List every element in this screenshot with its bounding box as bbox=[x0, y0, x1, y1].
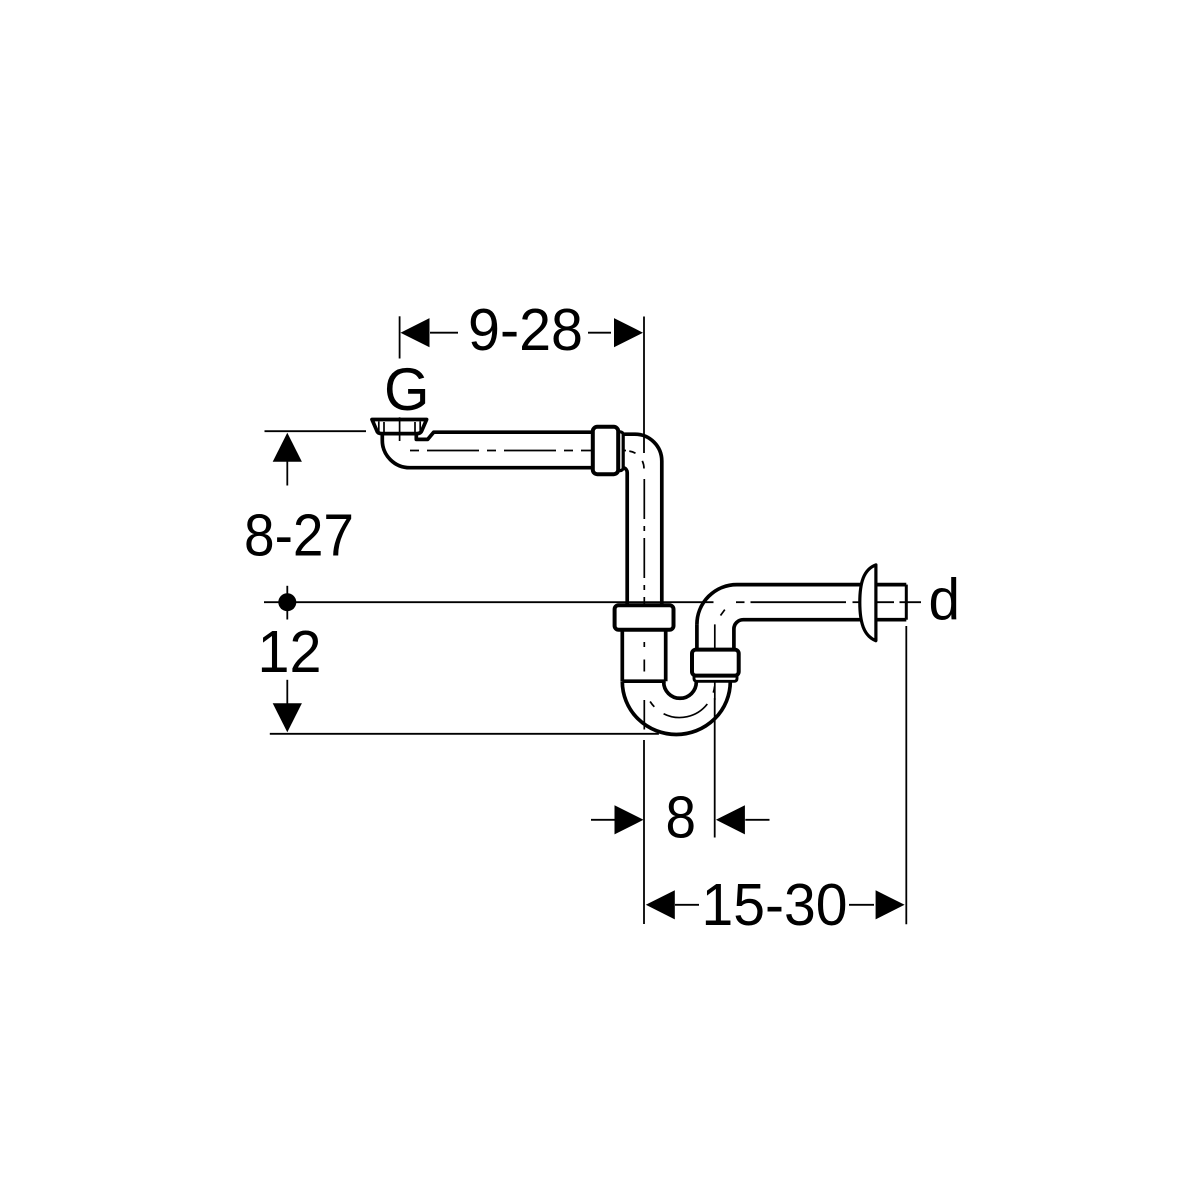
centerline U-bend dashes bbox=[650, 702, 654, 707]
arrow 12 down bbox=[273, 703, 302, 732]
union nut band bbox=[617, 432, 624, 471]
arrow 8-27 up bbox=[273, 433, 302, 462]
svg-text:8: 8 bbox=[666, 785, 697, 851]
flange slot ticks bbox=[379, 417, 420, 441]
centerline elbow 2 dash bbox=[721, 610, 725, 616]
centerline vertical pipe bbox=[643, 479, 645, 629]
svg-text:15-30: 15-30 bbox=[702, 872, 848, 938]
inlet pipe top outline with notch bbox=[416, 432, 593, 439]
U-bend outer arc bbox=[622, 682, 730, 735]
inlet pipe bottom outline bbox=[382, 435, 593, 468]
arrow 9-28 right bbox=[614, 318, 643, 347]
arrow 8 right (pointing left) bbox=[716, 805, 745, 834]
trap nut lower bbox=[692, 650, 739, 676]
elbow 1 inner bbox=[623, 468, 627, 606]
svg-text:9-28: 9-28 bbox=[468, 297, 583, 363]
trap nut upper bbox=[615, 605, 674, 629]
outlet pipe end cap bbox=[905, 585, 908, 620]
node dot on axis bbox=[278, 593, 296, 611]
dimension 9-28 bbox=[400, 316, 611, 358]
dimension 15-30 bbox=[675, 904, 874, 906]
centerline riser bbox=[714, 624, 716, 700]
arrow 9-28 left bbox=[401, 318, 430, 347]
union nut bbox=[593, 427, 618, 474]
flange G bbox=[372, 420, 427, 434]
dimension 8-27 bbox=[265, 431, 367, 485]
riser pipe edges bbox=[697, 625, 734, 650]
wall flange bbox=[860, 565, 876, 641]
centerline inlet pipe bbox=[410, 450, 626, 452]
U-bend inner arc bbox=[664, 682, 697, 698]
dimension 12 bbox=[270, 680, 659, 734]
svg-text:8-27: 8-27 bbox=[244, 503, 354, 569]
svg-text:G: G bbox=[384, 356, 430, 423]
dot tick bbox=[286, 586, 288, 620]
extension line x=906.3 (15-30 right) bbox=[905, 626, 907, 924]
extension line x=714.7 (8 right) bbox=[714, 698, 716, 838]
svg-text:12: 12 bbox=[258, 619, 322, 685]
dimension 8 bbox=[591, 819, 770, 821]
extension line x=644 bottom (8 / 15-30) bbox=[643, 740, 645, 924]
arrow 15-30 right (pointing right) bbox=[876, 890, 905, 919]
extension line x=644 top (9-28) bbox=[643, 317, 645, 454]
elbow 2 inner + outlet bottom edge bbox=[734, 620, 906, 629]
svg-text:d: d bbox=[929, 568, 961, 633]
elbow 2 outer + outlet top edge bbox=[697, 585, 906, 625]
centerline main axis y=602 bbox=[264, 601, 921, 603]
arrow 15-30 left (pointing left) bbox=[646, 890, 675, 919]
elbow 1 outer bbox=[623, 434, 662, 605]
trap nut lower band bbox=[694, 673, 737, 681]
centerline elbow 1 dashes bbox=[629, 451, 635, 453]
arrow 8 left (pointing right) bbox=[615, 805, 644, 834]
trap body tube bbox=[622, 630, 665, 682]
